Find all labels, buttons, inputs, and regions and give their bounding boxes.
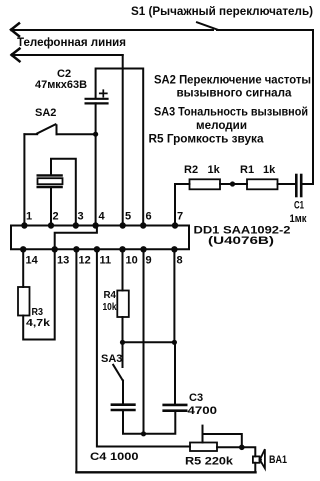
svg-text:C1: C1 [294, 200, 304, 212]
wire R3 to pin 13 [23, 249, 55, 339]
IC DD1 SAA1092-2 body outline [11, 226, 189, 250]
label R1 [240, 164, 276, 176]
wire crystal bottom to pin 2 [50, 188, 52, 226]
resistor R5 [190, 443, 217, 452]
wire pin9 down [143, 249, 145, 433]
wire SA3 to C4 [122, 381, 124, 404]
wire pin8 to C3 top [173, 249, 176, 404]
svg-text:SA3 Тональность вызывной: SA3 Тональность вызывной [154, 105, 308, 119]
capacitor C3 [164, 405, 187, 411]
wire R2 to R1 [220, 183, 247, 185]
resistor R2 [190, 179, 221, 189]
wire pin10 to R4 [122, 249, 124, 290]
node junction wiper/output [239, 445, 245, 451]
resistor R1 [247, 179, 278, 189]
svg-text:(U4076B): (U4076B) [208, 235, 274, 247]
svg-text:Телефонная линия: Телефонная линия [17, 36, 126, 49]
switch SA3 lever [113, 365, 123, 381]
switch SA2 [24, 124, 95, 134]
label R3 [26, 306, 50, 329]
label DD1 [194, 224, 291, 247]
svg-text:3: 3 [78, 211, 84, 223]
svg-text:1мк: 1мк [290, 213, 307, 225]
svg-text:C4 1000: C4 1000 [90, 451, 139, 463]
svg-text:47мкх63В: 47мкх63В [35, 79, 87, 91]
svg-text:12: 12 [79, 255, 91, 267]
crystal ZQ1 [38, 175, 63, 187]
wire pin7 to R2 [175, 184, 190, 226]
label legend [149, 73, 312, 146]
node junction pin8 link right [172, 340, 177, 345]
svg-text:13: 13 [57, 255, 69, 267]
wire R1 to C1 [278, 183, 296, 185]
resistor R4 [117, 291, 129, 318]
svg-text:4700: 4700 [188, 405, 218, 417]
svg-text:7: 7 [177, 211, 183, 223]
node junction SA2/C2/pin4 [93, 132, 98, 137]
svg-text:10k: 10k [103, 301, 117, 313]
capacitor C2 [86, 99, 108, 104]
wire telephone line 1 left segment [12, 29, 213, 31]
wire pin5 [122, 55, 124, 226]
label R4 [103, 289, 117, 313]
wire telephone line 1 right segment [217, 30, 313, 184]
svg-text:R2: R2 [184, 164, 198, 176]
wire crystal top to pin 3 [51, 159, 76, 226]
capacitor C4 [112, 405, 134, 410]
svg-text:R1: R1 [240, 164, 254, 176]
node pin dots top [21, 222, 178, 228]
node pin dots bottom [20, 246, 178, 252]
wire C2 bottom to pin 4 [95, 103, 97, 225]
label R2 [184, 164, 221, 176]
label C1 [290, 200, 307, 226]
svg-text:мелодии: мелодии [196, 118, 247, 132]
wire R5 wiper [203, 426, 242, 448]
wire bottom bus [76, 471, 255, 473]
svg-text:SA3: SA3 [101, 353, 122, 365]
svg-text:вызывного сигнала: вызывного сигнала [177, 86, 292, 100]
wire R5 right lead to speaker [217, 447, 255, 456]
svg-text:1: 1 [26, 211, 32, 223]
wire pin1 [23, 134, 25, 225]
svg-text:SA2: SA2 [35, 107, 56, 119]
svg-text:BA1: BA1 [269, 454, 287, 466]
svg-text:S1 (Рычажный переключатель): S1 (Рычажный переключатель) [131, 4, 313, 18]
wire link to pin8 [123, 341, 175, 343]
label C3 [188, 392, 218, 417]
svg-text:6: 6 [146, 211, 152, 223]
wire R4 to SA3 [122, 317, 124, 367]
node arrow line2 [12, 49, 20, 62]
wire C1 to right edge [302, 183, 313, 185]
label pin numbers top [26, 211, 183, 223]
svg-text:SA2 Переключение частоты: SA2 Переключение частоты [154, 73, 311, 87]
wire telephone line 2 [13, 54, 123, 56]
node junction pin9 bus [141, 431, 146, 436]
svg-text:5: 5 [125, 211, 131, 223]
svg-text:4: 4 [99, 211, 106, 223]
speaker BA1 [253, 449, 265, 468]
label pin numbers bottom [26, 255, 183, 267]
wire pin12 down [75, 249, 77, 472]
node junction R4/pin8 link left [120, 340, 125, 345]
svg-text:14: 14 [26, 255, 39, 267]
node C2 plus [100, 90, 107, 97]
svg-text:R4: R4 [104, 289, 117, 301]
wire pin14 to R3 [22, 249, 24, 287]
capacitor C1 [296, 175, 301, 196]
resistor R3 [18, 287, 30, 316]
svg-text:9: 9 [146, 255, 152, 267]
svg-text:2: 2 [53, 211, 59, 223]
wire speaker bottom to bus [254, 463, 256, 473]
wire C2 top to pin 6 [96, 69, 144, 226]
switch S1 lever [197, 22, 218, 30]
svg-text:11: 11 [100, 255, 112, 267]
node arrow line1 [11, 23, 19, 36]
svg-text:C3: C3 [189, 392, 203, 404]
wire C4 bottom to bus [123, 410, 175, 434]
svg-text:R5 Громкость звука: R5 Громкость звука [149, 132, 264, 146]
label C2 [35, 68, 87, 91]
node junction R2/R1 [230, 181, 235, 186]
svg-text:1k: 1k [263, 164, 276, 176]
svg-text:1k: 1k [208, 164, 221, 176]
svg-text:10: 10 [126, 255, 138, 267]
wire pin11 to R5 [97, 249, 190, 446]
svg-text:8: 8 [177, 255, 183, 267]
svg-text:4,7k: 4,7k [26, 317, 50, 329]
svg-text:R5 220k: R5 220k [185, 456, 234, 468]
